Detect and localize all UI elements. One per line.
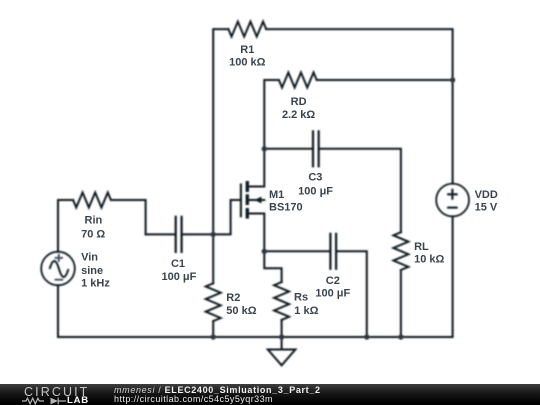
svg-text:1 kΩ: 1 kΩ <box>294 305 318 317</box>
svg-text:10 kΩ: 10 kΩ <box>414 254 444 266</box>
svg-text:Rin: Rin <box>85 215 103 227</box>
svg-text:2.2 kΩ: 2.2 kΩ <box>282 109 315 121</box>
svg-text:RD: RD <box>291 96 307 108</box>
svg-text:M1: M1 <box>269 189 284 201</box>
svg-text:100 μF: 100 μF <box>315 288 350 300</box>
svg-text:R2: R2 <box>226 292 240 304</box>
svg-text:70 Ω: 70 Ω <box>81 228 105 240</box>
svg-text:15 V: 15 V <box>475 202 498 214</box>
svg-text:C1: C1 <box>171 258 185 270</box>
svg-text:sine: sine <box>81 265 103 277</box>
svg-text:Vin: Vin <box>81 252 98 264</box>
svg-text:100 μF: 100 μF <box>161 271 196 283</box>
svg-text:C2: C2 <box>326 275 340 287</box>
svg-text:100 μF: 100 μF <box>298 185 333 197</box>
svg-text:100 kΩ: 100 kΩ <box>229 56 266 68</box>
svg-text:1 kHz: 1 kHz <box>81 278 110 290</box>
svg-text:RL: RL <box>414 241 429 253</box>
svg-text:BS170: BS170 <box>269 202 303 214</box>
svg-text:R1: R1 <box>240 44 254 56</box>
svg-text:Rs: Rs <box>294 292 308 304</box>
svg-text:C3: C3 <box>308 171 322 183</box>
svg-text:50 kΩ: 50 kΩ <box>226 305 256 317</box>
svg-text:VDD: VDD <box>475 189 498 201</box>
